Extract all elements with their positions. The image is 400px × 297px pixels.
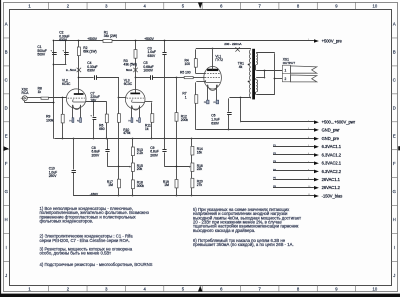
svg-text:100k: 100k <box>46 118 54 122</box>
wire C9 to R16 wiper <box>165 166 190 168</box>
resistor R11 <box>151 114 154 123</box>
svg-text:300k: 300k <box>137 184 145 188</box>
page edge shading <box>0 0 1 297</box>
svg-text:GND_pre: GND_pre <box>322 136 340 141</box>
current test point output stage <box>235 47 239 51</box>
resistor R19 <box>175 180 178 188</box>
svg-text:1M: 1M <box>164 183 169 187</box>
svg-text:+500V: +500V <box>87 37 97 41</box>
svg-text:ГУ72: ГУ72 <box>215 58 223 62</box>
junction rail/C2 <box>65 40 67 42</box>
wire VL3 grid <box>119 97 126 99</box>
svg-text:+500V: +500V <box>144 37 154 41</box>
transformer TR1 core <box>252 49 255 100</box>
svg-text:475k: 475k <box>123 131 131 135</box>
connector XS1 OUTPUT <box>282 65 290 82</box>
svg-text:1k: 1k <box>145 127 149 131</box>
tube VL3 6C3C <box>125 90 145 111</box>
resistor R3 <box>134 50 137 59</box>
wire secondary B to pin1 <box>255 65 257 71</box>
svg-text:+500V_pre: +500V_pre <box>322 38 343 43</box>
capacitor C4 <box>95 75 97 80</box>
wire C2 branch <box>65 41 67 65</box>
net flag GND_pwr <box>196 129 314 131</box>
svg-text:500V: 500V <box>37 53 46 57</box>
svg-text:43k (5W): 43k (5W) <box>124 63 137 67</box>
svg-text:26VAC1.1: 26VAC1.1 <box>322 177 341 182</box>
junction shield/gnd line <box>53 102 55 104</box>
junction bias right <box>176 166 178 168</box>
wire sec link <box>264 71 266 79</box>
output flag 1 <box>291 66 317 73</box>
junction bus/R13 <box>132 138 134 140</box>
input jack XS2 RCA <box>22 96 27 101</box>
svg-text:E: E <box>393 133 396 138</box>
junction rail/R2 <box>78 40 80 42</box>
net flag 6.3VAC2.1 <box>273 162 314 164</box>
svg-text:C: C <box>393 77 396 82</box>
svg-text:P4: P4 <box>136 120 138 122</box>
svg-text:-150V_bias: -150V_bias <box>322 193 343 198</box>
net flag 6.3VAC1.2 <box>273 154 314 156</box>
svg-text:особо, должны быть не менее 0.: особо, должны быть не менее 0.5Вт <box>40 251 112 256</box>
svg-text:серии PEH200, C7 - Elna Cerafi: серии PEH200, C7 - Elna Cerafine серии R… <box>40 238 130 243</box>
svg-text:P2: P2 <box>77 120 79 122</box>
junction anode line <box>212 48 214 50</box>
svg-text:22k: 22k <box>197 167 203 171</box>
svg-text:GND_pwr: GND_pwr <box>322 127 341 132</box>
wire input signal <box>27 97 41 99</box>
net flag +500V_pre <box>313 40 315 42</box>
output flag 2 <box>291 75 317 82</box>
svg-text:J: J <box>5 273 7 278</box>
svg-text:26VAC1.2: 26VAC1.2 <box>322 185 341 190</box>
junction rail/C3 <box>164 40 166 42</box>
tube VL2 6C3C <box>66 89 86 110</box>
junction -150V/R17 <box>118 195 120 197</box>
resistor R12 <box>175 113 178 122</box>
TR1 primary winding <box>249 50 251 98</box>
wire R2 anode branch VL2 <box>78 41 80 47</box>
wire bias junction left to R15 wiper <box>117 166 129 168</box>
svg-text:A: A <box>5 22 8 27</box>
junction sec/pin2 <box>274 78 276 80</box>
current test point VL3 anode <box>133 68 137 72</box>
svg-text:10: 10 <box>372 3 377 8</box>
svg-text:D: D <box>5 105 8 110</box>
wire VL1 cathode + R7 <box>219 81 221 83</box>
heater legs + pins VL2 <box>72 105 74 118</box>
wire GND_pre bus <box>54 138 314 140</box>
centerline markers <box>198 2 203 8</box>
wire anode line <box>196 48 251 50</box>
svg-text:J: J <box>393 273 395 278</box>
capacitor C2 <box>64 53 69 55</box>
svg-text:6.3VAC2.2: 6.3VAC2.2 <box>322 169 342 174</box>
resistor R18 <box>131 180 134 189</box>
svg-text:200V: 200V <box>150 153 159 157</box>
svg-text:P1: P1 <box>69 120 71 122</box>
svg-text:6C3C: 6C3C <box>62 82 71 86</box>
wire C1 branch <box>53 41 55 139</box>
svg-text:250V: 250V <box>49 174 58 178</box>
TR1 secondary winding upper <box>256 53 257 64</box>
svg-text:8mA: 8mA <box>126 68 132 72</box>
resistor R4 <box>194 59 197 68</box>
current test point VL2 anode <box>77 68 81 72</box>
wire input shield <box>24 101 26 103</box>
svg-text:I: I <box>6 245 7 250</box>
junction rail/C1 <box>53 40 55 42</box>
capacitor C6 <box>227 113 232 115</box>
svg-text:630V: 630V <box>87 69 96 73</box>
heater legs + pins VL1 <box>207 85 209 100</box>
svg-text:превышает 350мА (по каждой), а: превышает 350мА (по каждой), а по цепи 2… <box>193 242 294 247</box>
junction B+ / primary <box>240 97 242 99</box>
wire secondary A-D loop <box>256 52 275 54</box>
divider chain R14 R16 R20 <box>191 139 193 147</box>
svg-text:630V: 630V <box>148 54 157 58</box>
phase dot primary upper <box>248 64 250 66</box>
svg-text:6.3VAC1.1: 6.3VAC1.1 <box>322 144 342 149</box>
svg-text:B: B <box>393 49 396 54</box>
wire VL3 anode to C5 to VL1 grid node <box>136 77 151 79</box>
net flag 26VAC1.1 <box>273 179 314 181</box>
svg-text:H: H <box>393 217 396 222</box>
wire VL3 cathode + R11 <box>145 101 153 103</box>
svg-text:1k: 1k <box>38 90 42 94</box>
net flag 26VAC1.2 <box>273 187 314 189</box>
svg-text:F: F <box>5 161 8 166</box>
wire -150V line <box>74 195 314 197</box>
capacitor C10 branch <box>73 139 75 170</box>
svg-text:1: 1 <box>185 95 187 99</box>
junction bus/C10 <box>73 138 75 140</box>
svg-text:200 - 220mA: 200 - 220mA <box>224 42 241 46</box>
net flag 6.3VAC1.1 <box>273 146 314 148</box>
wire +500V rail <box>54 40 103 42</box>
wire VL2 cathode <box>86 101 107 103</box>
junction bus/R6 <box>106 138 108 140</box>
resistor R10 <box>118 114 121 123</box>
svg-text:фольговых конденсаторов.: фольговых конденсаторов. <box>40 219 94 224</box>
svg-text:630V: 630V <box>211 121 220 125</box>
svg-text:H: H <box>5 217 8 222</box>
svg-text:I: I <box>394 245 395 250</box>
svg-text:2: 2 <box>285 77 287 81</box>
resistor R17 <box>118 179 121 188</box>
svg-text:B: B <box>5 49 8 54</box>
net flag -150V_bias <box>74 195 314 197</box>
svg-text:6.3VAC1.2: 6.3VAC1.2 <box>322 152 342 157</box>
svg-text:680: 680 <box>99 127 105 131</box>
svg-text:RCA: RCA <box>22 91 30 95</box>
junction -150V/R18 <box>132 195 134 197</box>
svg-text:27k: 27k <box>197 183 203 187</box>
svg-text:P5: P5 <box>204 102 206 104</box>
wire B+ drop <box>240 98 242 122</box>
svg-text:R5 100: R5 100 <box>180 70 191 74</box>
svg-text:OUTPUT: OUTPUT <box>283 61 296 65</box>
junction sec tap <box>264 70 266 72</box>
resistor R20 <box>191 178 194 188</box>
capacitor C8 <box>105 150 109 152</box>
svg-text:20k: 20k <box>137 167 143 171</box>
svg-text:10: 10 <box>372 287 377 292</box>
svg-text:1M: 1M <box>108 183 113 187</box>
resistor R4 screen stopper <box>195 49 197 58</box>
TR1 secondary winding lower <box>256 80 257 92</box>
svg-text:E: E <box>5 133 8 138</box>
svg-text:200k: 200k <box>181 118 189 122</box>
junction bus/R9 <box>62 138 64 140</box>
junction bias left <box>118 166 120 168</box>
node VL3 anode / C5 <box>135 77 137 79</box>
svg-text:68k (1W): 68k (1W) <box>83 50 96 54</box>
svg-text:G: G <box>393 189 396 194</box>
tube VL1 GU-72 <box>204 66 222 90</box>
heater legs + pins VL3 <box>131 106 133 118</box>
junction C6/GND_pwr <box>228 129 230 131</box>
resistor R5 grid stopper <box>177 77 185 79</box>
svg-text:16V: 16V <box>90 99 97 103</box>
capacitor C9 <box>162 150 166 152</box>
wire GND_pwr <box>196 129 314 131</box>
svg-text:16k: 16k <box>197 151 203 155</box>
resistor R1 <box>103 40 112 43</box>
svg-text:+500...+600V_pwr: +500...+600V_pwr <box>322 120 356 125</box>
wire VL1 anode up <box>212 49 214 69</box>
resistor R8 <box>41 97 48 99</box>
svg-text:A: A <box>393 22 396 27</box>
svg-text:100: 100 <box>185 62 191 66</box>
wire R12 grid leak line <box>176 78 178 113</box>
trimmer R16 <box>191 163 194 171</box>
capacitor C5 <box>151 75 153 80</box>
svg-text:D: D <box>393 105 396 110</box>
divider chain R13 R15 R18 <box>132 139 134 147</box>
svg-text:C: C <box>5 77 8 82</box>
resistor R2 <box>77 47 80 56</box>
junction grid/R9 <box>62 97 64 99</box>
trimmer R15 <box>131 163 134 171</box>
wire primary B+ feed <box>229 97 251 99</box>
node VL2 anode / C4 <box>78 77 80 79</box>
wire grid line down through R10 <box>118 78 120 114</box>
junction -150V/R19 <box>176 195 178 197</box>
net flag GND_pre <box>54 138 314 140</box>
junction bus/C9 <box>164 138 166 140</box>
junction -150V/R20 <box>191 195 193 197</box>
wire VL2 anode to C4 <box>79 77 94 79</box>
junction cathode/C7 <box>93 101 95 103</box>
wire R6 cathode resistor <box>106 102 108 114</box>
junction bus/R14 <box>191 138 193 140</box>
svg-text:4) Подстроечные резисторы - мн: 4) Подстроечные резисторы - многооборотн… <box>40 262 153 267</box>
svg-text:1000V: 1000V <box>143 69 153 73</box>
resistor R7 <box>195 95 198 104</box>
node VL1 grid / R12 <box>176 77 178 79</box>
capacitor C1 <box>52 53 57 55</box>
capacitor C6 branch <box>228 98 230 111</box>
resistor R5 <box>184 77 193 79</box>
wire primary bottom lead <box>250 97 252 98</box>
phase dot primary lower <box>248 81 250 83</box>
resistor R6 <box>105 114 108 123</box>
wire R3 anode branch VL3 <box>135 41 137 50</box>
resistor R13 <box>131 147 134 156</box>
svg-text:630V: 630V <box>59 38 68 42</box>
svg-text:1: 1 <box>285 69 287 73</box>
svg-text:200V: 200V <box>92 153 101 157</box>
capacitor C8 branch <box>107 139 109 150</box>
svg-text:F: F <box>393 161 396 166</box>
svg-text:3...5mA: 3...5mA <box>66 68 76 72</box>
svg-text:4k: 4k <box>239 65 243 69</box>
resistor R14 <box>191 146 194 155</box>
resistor R9 <box>61 114 64 123</box>
junction bus/R11 <box>151 138 153 140</box>
svg-text:2.2k: 2.2k <box>137 151 144 155</box>
svg-text:34k (2W): 34k (2W) <box>104 34 117 38</box>
wire C3/C9 branch <box>164 41 166 52</box>
net flag 6.3VAC2.2 <box>273 170 314 172</box>
junction rail/R3 <box>135 40 137 42</box>
junction C2-C1 gnd <box>53 64 55 66</box>
capacitor C10 <box>72 171 76 173</box>
capacitor C3 <box>162 53 166 55</box>
junction grid VL3 <box>118 97 120 99</box>
svg-text:P3: P3 <box>128 120 130 122</box>
svg-text:P6: P6 <box>213 102 215 104</box>
resistor R17 <box>118 167 120 180</box>
junction bus/C7 <box>93 138 95 140</box>
svg-text:G: G <box>5 189 8 194</box>
svg-text:6C3C: 6C3C <box>124 82 133 86</box>
capacitor C7 <box>93 102 95 117</box>
capacitor C7 plates <box>93 118 97 120</box>
svg-text:выходного каскада и драйвера.: выходного каскада и драйвера. <box>193 228 255 233</box>
net flag +500...+600V_pwr <box>241 121 314 123</box>
svg-text:6.3VAC2.1: 6.3VAC2.1 <box>322 161 342 166</box>
